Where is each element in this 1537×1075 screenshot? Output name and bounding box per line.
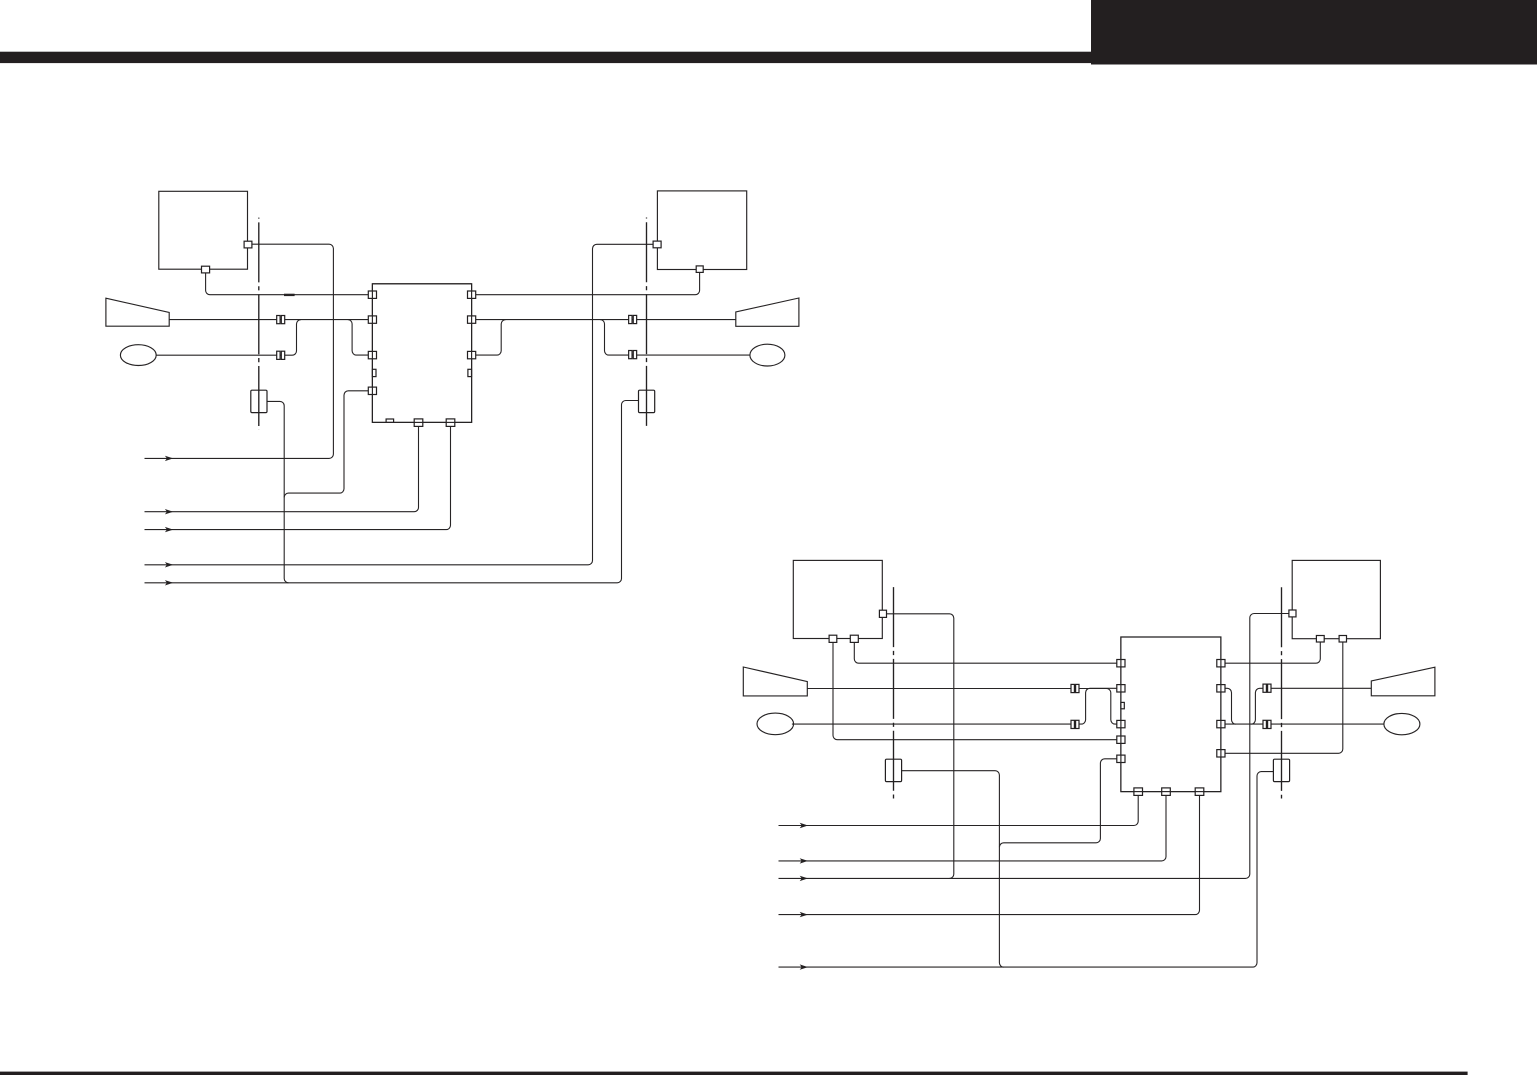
unit A left pin 3: [368, 351, 376, 358]
unit B left pin 5: [1117, 755, 1125, 762]
wire harness arrow 3B to B2 left connector: [779, 614, 1289, 879]
door boundary dash-dot left B: [893, 587, 895, 798]
unit B bottom pin 2: [1162, 788, 1171, 796]
header band: [0, 52, 1092, 63]
harness arrow 5B: [800, 964, 808, 969]
door connector pair B right lower: [1263, 720, 1271, 728]
wire branch to right tweeter: [600, 320, 750, 355]
harness arrow 5: [165, 580, 173, 585]
unit B right pin 1: [1217, 660, 1225, 667]
door connector pair B left upper: [1071, 684, 1079, 692]
wire branch up to right speaker B: [1251, 688, 1371, 724]
wire unit B right pin 1 to B2 bottom connector 1: [1221, 642, 1320, 663]
in-line connector right door B: [1273, 759, 1289, 781]
unit B box outline over pins: [1121, 637, 1221, 792]
unit B bottom pin 3: [1195, 788, 1204, 796]
splice mark on pin 1 wire: [284, 294, 295, 296]
unit B right pin 3: [1217, 720, 1225, 727]
wire left in-line connector drop: [266, 401, 288, 582]
wire A1 bottom connector to unit A left pin 1: [206, 273, 373, 295]
wire B1 bottom connector 1 to unit B left pin 4: [833, 642, 1121, 739]
wire left in-line connector B drop to line 5B: [901, 771, 1004, 967]
wire harness arrow 3 to unit A bottom pin 3: [145, 427, 451, 530]
unit A right pin 2: [468, 316, 476, 323]
front speaker right (horn): [736, 298, 799, 326]
connector on A2 left edge: [653, 241, 661, 248]
tweeter right B (ellipse): [1384, 713, 1420, 734]
connector on B2 bottom edge 1: [1316, 636, 1324, 643]
bottom rule: [0, 1072, 1468, 1075]
wire left tweeter joins speaker line: [156, 320, 301, 356]
box A2 rear speaker right: [657, 191, 746, 270]
harness arrow 2: [165, 509, 173, 514]
unit A left pin 1: [368, 291, 376, 298]
unit A bottom pin 2: [414, 419, 423, 427]
door connector pair right lower: [629, 351, 637, 359]
wire B1 bottom connector 2 to unit B left pin 1: [854, 642, 1121, 663]
harness arrow 1B: [800, 823, 808, 828]
wire unit B right pin 2 jog down: [1221, 688, 1236, 724]
in-line connector right door: [639, 390, 655, 412]
wire harness arrow 4B to unit B bottom pin 3: [779, 795, 1200, 914]
harness arrow 3B: [800, 876, 808, 881]
harness arrow 3: [165, 527, 173, 532]
wire unit B left pin 2 to left tweeter B: [792, 688, 1121, 724]
wire unit A right pin 2 to right speaker: [472, 319, 736, 321]
unit B left half-pin: [1121, 702, 1124, 708]
header black box: [1091, 0, 1537, 65]
box B1 rear speaker left: [793, 560, 882, 638]
door connector pair left lower: [277, 351, 285, 359]
unit B bottom pin 1: [1134, 788, 1143, 796]
door connector pair B right upper: [1263, 684, 1271, 692]
unit A right pin 1: [468, 291, 476, 298]
wire harness arrow 2B to unit B bottom pin 2: [779, 795, 1167, 861]
unit A left pin 5: [368, 387, 376, 394]
door connector pair B left lower: [1071, 720, 1079, 728]
wire left speaker to unit A left pin 2: [169, 319, 372, 321]
wire harness arrow 5 to right in-line connector: [145, 401, 640, 583]
front speaker left (horn): [106, 298, 169, 326]
unit B right pin 4: [1217, 750, 1225, 757]
tweeter left B (ellipse): [757, 713, 794, 735]
wire harness arrow 1B to unit B bottom pin 1: [779, 795, 1139, 825]
harness arrow 1: [165, 456, 173, 461]
unit A left pin 2: [368, 316, 376, 323]
connector on B2 bottom edge 2: [1339, 636, 1346, 643]
unit A right pin 3: [468, 351, 476, 358]
unit A bottom edge small tab: [386, 419, 394, 422]
unit B head unit box: [1121, 637, 1221, 792]
wire unit B right pin 3 to right tweeter B: [1221, 723, 1384, 725]
unit B left pin 4: [1117, 736, 1125, 743]
front speaker right B (horn): [1371, 667, 1435, 696]
in-line connector left door: [251, 390, 267, 412]
unit A left half-pin: [372, 369, 376, 376]
door boundary dash-dot left: [258, 218, 260, 430]
wire unit A right pin 1 to A2 bottom connector: [472, 272, 700, 294]
unit A right half-pin: [468, 369, 472, 376]
connector on B1 bottom edge 1: [829, 635, 837, 642]
connector on B1 right edge: [879, 610, 886, 617]
connector on B1 bottom edge 2: [850, 635, 858, 642]
unit A bottom pin 3: [446, 419, 455, 427]
door boundary dash-dot right B: [1281, 587, 1283, 798]
door boundary dash-dot right: [646, 218, 648, 430]
unit B left pin 1: [1117, 660, 1125, 667]
unit A head unit box: [372, 284, 471, 423]
wire branch to unit A left pin 3: [348, 320, 373, 355]
in-line connector left door B: [885, 759, 901, 781]
harness arrow 4: [165, 562, 173, 567]
harness arrow 4B: [800, 912, 808, 917]
connector on B2 left edge: [1289, 610, 1296, 617]
connector on A2 bottom edge: [696, 266, 703, 273]
harness arrow 2B: [800, 858, 808, 863]
wire A1 right connector to harness arrow 1: [145, 244, 334, 458]
box A1 rear speaker left: [159, 191, 248, 269]
door connector pair right upper: [629, 315, 637, 323]
door connector pair left upper: [277, 316, 285, 324]
wire unit B left pin 5 ground run: [999, 759, 1121, 847]
wire harness arrow 2 to unit A bottom pin 2: [145, 427, 419, 512]
box B2 rear speaker right: [1292, 560, 1380, 638]
unit B right pin 2: [1217, 685, 1225, 692]
wire B1 right connector drop to line 3: [886, 614, 953, 879]
unit B left pin 3: [1117, 720, 1125, 727]
connector on A1 right edge: [244, 241, 252, 248]
wire unit A left pin 5 ground run: [284, 391, 372, 498]
front speaker left B (horn): [743, 667, 807, 696]
unit B left pin 2: [1117, 685, 1125, 692]
tweeter right (ellipse): [750, 344, 785, 366]
unit A box outline over pins: [372, 284, 471, 423]
connector on A1 bottom edge: [202, 266, 210, 273]
wire unit A right pin 3 joins speaker line: [472, 320, 506, 355]
wire unit B right pin 4 to B2 bottom connector 2: [1221, 642, 1343, 753]
wire A2 left connector to harness arrow 4: [145, 244, 654, 565]
wire left speaker B to unit B left pin 3: [807, 689, 1121, 725]
tweeter left (ellipse): [120, 345, 156, 366]
wire harness arrow 5B to right in-line connector B: [779, 772, 1275, 968]
